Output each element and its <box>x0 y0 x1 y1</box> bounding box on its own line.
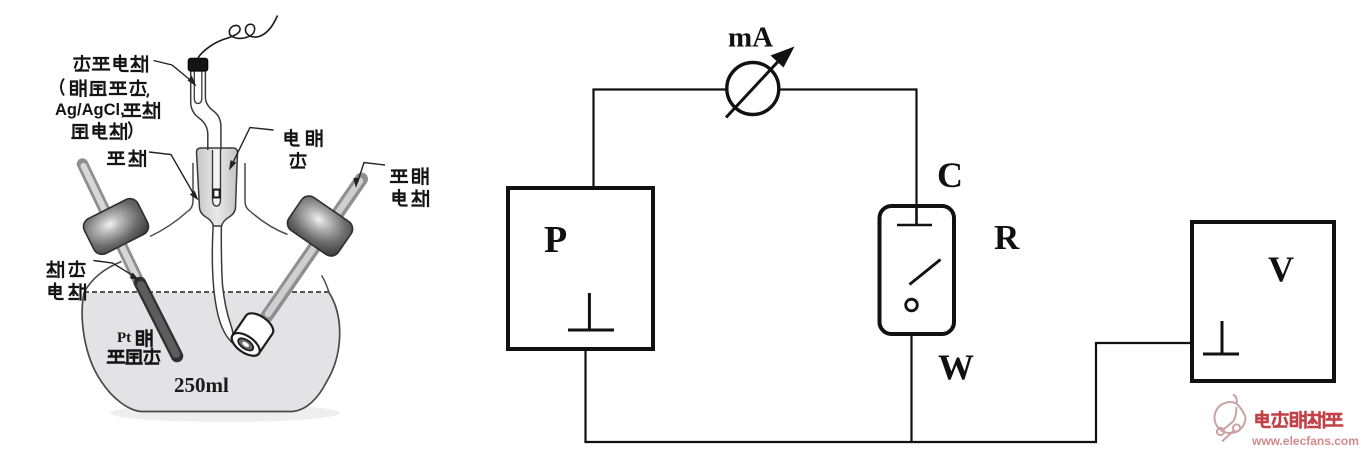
liquid surface dashed line <box>84 291 329 293</box>
label: 电解液 (electrolyte) <box>286 130 322 168</box>
switch blade <box>910 260 941 285</box>
label: 辅助电极 (auxiliary electrode) <box>48 262 86 300</box>
working electrode tip cylinder (disc electrode) <box>228 309 277 360</box>
svg-text:V: V <box>1268 249 1294 289</box>
svg-text:C: C <box>937 155 963 195</box>
watermark text 电子发烧友 <box>1257 412 1343 428</box>
label: 盐桥 (salt bridge) <box>108 151 145 167</box>
reference electrode inner tube inside joint <box>213 150 221 206</box>
label pointer: reference electrode <box>154 61 193 82</box>
svg-text:Ag/AgCl,: Ag/AgCl, <box>55 101 125 119</box>
milliammeter mA <box>726 22 795 118</box>
auxiliary electrode dark tip (Pt) <box>140 283 177 356</box>
label: 参比电极 (reference electrode) <box>75 56 148 72</box>
wire: top rail left segment to mA meter <box>592 88 727 90</box>
svg-text:R: R <box>994 218 1020 257</box>
reference electrode cap (black) <box>188 58 208 71</box>
auxiliary electrode stopper <box>80 196 151 258</box>
wire: W lead from switch pole down to bottom rail <box>910 312 912 442</box>
ground glass joint (stopper) of salt bridge <box>197 148 238 226</box>
box P (polarizing power supply) <box>508 188 653 349</box>
flask dome arc right (between centre neck and working neck) <box>251 212 288 235</box>
wire: bottom rail <box>584 441 1096 443</box>
reference electrode lead wire curl <box>198 16 278 59</box>
svg-text:mA: mA <box>728 22 773 54</box>
svg-text:W: W <box>938 347 974 387</box>
label pointer: working electrode <box>358 163 386 183</box>
flask liquid (electrolyte, grey) <box>82 293 340 412</box>
auxiliary electrode rod <box>83 164 178 356</box>
label pointer: auxiliary electrode <box>94 261 135 277</box>
switch pole node W <box>906 299 918 311</box>
wire: right riser from bottom rail <box>1095 343 1097 443</box>
svg-text:P: P <box>544 219 567 261</box>
flask left shoulder wall <box>84 262 122 293</box>
wire: top rail right segment from mA meter <box>779 88 917 90</box>
ground symbol inside V <box>1203 321 1239 354</box>
wire: P bottom lead down to bottom rail <box>584 349 586 442</box>
electrode C terminal inside cell <box>897 206 932 225</box>
ground symbol inside P <box>568 293 614 330</box>
label pointer: salt bridge <box>149 152 195 196</box>
label pointer: electrolyte <box>232 128 274 166</box>
flask centre neck <box>188 163 251 212</box>
electrolytic cell box C/W (rounded) <box>880 155 1021 387</box>
flask right shoulder wall <box>322 276 330 293</box>
watermark logo circle <box>1215 395 1246 442</box>
svg-text:www.elecfans.com: www.elecfans.com <box>1251 434 1359 448</box>
working electrode stopper <box>284 193 356 260</box>
flask shadow <box>110 404 340 422</box>
label: （饱和甘汞, <box>61 79 149 98</box>
wire: drop from top rail to C terminal <box>915 88 917 206</box>
box V (voltmeter) <box>1192 222 1334 381</box>
flask dome arc left (between aux neck and centre neck) <box>150 212 188 237</box>
salt bridge lower tube dipping into liquid <box>212 220 232 342</box>
needle arrowhead <box>771 47 795 68</box>
wire: lower lead into V box <box>1095 342 1192 344</box>
reference electrode upper tube with bend <box>191 70 221 150</box>
reference electrode inner glass body <box>194 71 202 104</box>
salt bridge frit (small square) <box>212 189 220 199</box>
meter needle <box>726 53 786 118</box>
svg-text:Pt: Pt <box>117 330 131 346</box>
svg-text:250ml: 250ml <box>174 373 229 397</box>
working electrode rod <box>267 179 362 316</box>
label: 氢电极） <box>73 122 132 140</box>
label: 工作电极 (working electrode) <box>391 169 428 207</box>
flask bowl outline <box>82 293 340 412</box>
wire: P top lead up to top rail <box>592 90 594 189</box>
